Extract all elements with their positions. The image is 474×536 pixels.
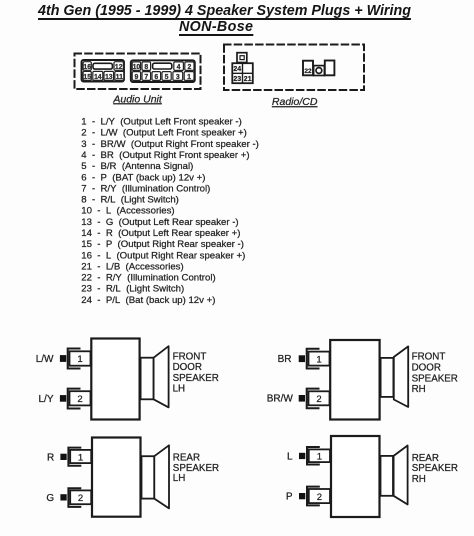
svg-text:14: 14 xyxy=(94,74,102,81)
key box inner square xyxy=(240,56,244,60)
terminal 1 box xyxy=(70,450,91,463)
speaker body FRONT DOOR LH xyxy=(91,339,139,420)
svg-text:4: 4 xyxy=(177,64,181,71)
svg-text:22 - R/Y (Illumination Cont: 22 - R/Y (Illumination Control) xyxy=(81,273,215,284)
svg-text:21: 21 xyxy=(244,76,252,83)
terminal 2 box xyxy=(70,391,91,405)
svg-text:14 - R (Output Left Rear sp: 14 - R (Output Left Rear speaker +) xyxy=(81,228,240,239)
Audio Unit connector A outer shell xyxy=(82,60,125,82)
pin 14 xyxy=(93,71,103,80)
Radio/CD plug round socket box xyxy=(314,66,325,76)
svg-text:15 - P (Output Right Rear s: 15 - P (Output Right Rear speaker -) xyxy=(81,239,244,250)
cone FRONT DOOR RH xyxy=(394,346,408,407)
terminal 1 housing bracket xyxy=(307,349,319,369)
pin 15 xyxy=(83,71,91,80)
svg-text:LH: LH xyxy=(173,473,186,484)
Radio/CD connector pin grid xyxy=(232,63,253,83)
svg-text:SPEAKER: SPEAKER xyxy=(412,463,458,474)
svg-text:11: 11 xyxy=(116,74,123,81)
svg-text:L/W: L/W xyxy=(36,354,54,365)
svg-text:1 - L/Y (Output Left Front: 1 - L/Y (Output Left Front speaker -) xyxy=(81,117,242,128)
svg-text:1: 1 xyxy=(317,452,322,463)
pin 5 xyxy=(162,72,171,81)
pin 1 xyxy=(184,72,194,81)
pin 6 xyxy=(152,72,161,81)
terminal 2 box xyxy=(70,490,91,504)
terminal 1 wire stub xyxy=(60,355,66,362)
connector B key slot xyxy=(153,63,172,69)
svg-text:2: 2 xyxy=(78,493,83,504)
svg-text:LH: LH xyxy=(173,384,186,395)
svg-text:2 - L/W (Output Left Front: 2 - L/W (Output Left Front speaker +) xyxy=(81,128,247,139)
svg-text:4 - BR (Output Right Front: 4 - BR (Output Right Front speaker +) xyxy=(81,150,249,161)
svg-text:6 - P (BAT (back up) 12v +): 6 - P (BAT (back up) 12v +) xyxy=(81,172,205,183)
svg-text:5 - B/R (Antenna Signal): 5 - B/R (Antenna Signal) xyxy=(81,161,193,172)
terminal 1 box xyxy=(309,352,330,366)
svg-text:12: 12 xyxy=(115,64,123,71)
terminal 1 wire stub xyxy=(60,454,66,460)
svg-text:7 - R/Y (Illumination Contr: 7 - R/Y (Illumination Control) xyxy=(81,183,210,194)
Audio Unit dashed enclosure xyxy=(75,54,201,90)
magnet FRONT DOOR RH xyxy=(381,358,394,397)
svg-text:RH: RH xyxy=(412,474,426,485)
svg-text:2: 2 xyxy=(187,64,191,71)
svg-text:24 - P/L (Bat (back up) 12v: 24 - P/L (Bat (back up) 12v +) xyxy=(81,295,215,306)
speaker body FRONT DOOR RH xyxy=(330,340,379,420)
cone REAR RH xyxy=(394,446,408,505)
magnet REAR RH xyxy=(381,456,394,496)
svg-text:13: 13 xyxy=(105,74,113,81)
svg-text:23 - R/L (Light Switch): 23 - R/L (Light Switch) xyxy=(81,284,184,295)
svg-text:DOOR: DOOR xyxy=(412,363,441,374)
Audio Unit connector B outer shell xyxy=(131,60,195,82)
svg-text:BR/W: BR/W xyxy=(267,394,294,405)
svg-text:L: L xyxy=(287,451,293,462)
svg-text:P: P xyxy=(286,492,293,503)
terminal 1 housing bracket xyxy=(68,448,80,466)
svg-text:21 - L/B (Accessories): 21 - L/B (Accessories) xyxy=(81,261,183,272)
svg-text:RH: RH xyxy=(412,384,426,395)
pin 4 xyxy=(174,62,184,71)
svg-text:Audio Unit: Audio Unit xyxy=(112,93,163,105)
pin 10 xyxy=(132,62,140,71)
speaker body REAR LH xyxy=(92,438,141,517)
terminal 1 wire stub xyxy=(299,355,305,362)
terminal 1 housing bracket xyxy=(307,447,319,465)
pin 9 xyxy=(132,72,140,81)
grid divider horizontal xyxy=(232,72,253,74)
svg-text:3 - BR/W (Output Right Fron: 3 - BR/W (Output Right Front speaker -) xyxy=(81,139,259,150)
svg-text:1: 1 xyxy=(78,452,83,463)
svg-text:R: R xyxy=(47,452,54,463)
terminal 2 wire stub xyxy=(299,395,305,402)
svg-text:16: 16 xyxy=(83,64,91,71)
cone REAR LH xyxy=(154,445,169,508)
title line 1 xyxy=(38,3,411,19)
terminal 1 housing bracket xyxy=(68,349,80,369)
svg-text:15: 15 xyxy=(83,74,91,81)
round socket xyxy=(316,68,322,74)
terminal 2 housing bracket xyxy=(68,389,80,409)
svg-text:13 - G (Output Left Rear sp: 13 - G (Output Left Rear speaker -) xyxy=(81,217,238,228)
pin 3 xyxy=(173,72,183,81)
svg-text:6: 6 xyxy=(154,74,158,81)
speaker body REAR RH xyxy=(331,436,380,517)
svg-text:SPEAKER: SPEAKER xyxy=(412,374,458,385)
svg-text:10: 10 xyxy=(133,64,141,71)
svg-text:BR: BR xyxy=(278,354,292,365)
terminal 1 wire stub xyxy=(299,453,305,459)
Radio/CD plug pin 22 box xyxy=(303,61,313,76)
svg-text:SPEAKER: SPEAKER xyxy=(173,373,219,384)
Radio/CD plug blank box xyxy=(325,61,335,76)
svg-text:SPEAKER: SPEAKER xyxy=(173,463,219,474)
svg-text:1: 1 xyxy=(187,74,191,81)
svg-text:9: 9 xyxy=(134,74,138,81)
svg-text:3: 3 xyxy=(176,74,180,81)
terminal 2 box xyxy=(309,489,330,503)
pin 12 xyxy=(114,62,123,71)
svg-text:24: 24 xyxy=(233,66,241,73)
svg-text:10 - L (Accessories): 10 - L (Accessories) xyxy=(81,206,174,217)
svg-text:G: G xyxy=(46,493,54,504)
svg-text:8 - R/L (Light Switch): 8 - R/L (Light Switch) xyxy=(81,195,179,206)
pin 2 xyxy=(185,62,194,71)
svg-text:2: 2 xyxy=(316,394,321,405)
magnet REAR LH xyxy=(142,456,155,498)
pin 13 xyxy=(104,71,114,80)
svg-text:8: 8 xyxy=(144,64,148,71)
svg-text:FRONT: FRONT xyxy=(173,351,207,362)
svg-text:16 - L (Output Right Rear s: 16 - L (Output Right Rear speaker +) xyxy=(81,250,245,261)
svg-text:5: 5 xyxy=(165,74,169,81)
grid divider vertical xyxy=(242,63,244,83)
svg-text:1: 1 xyxy=(77,354,82,365)
svg-text:L/Y: L/Y xyxy=(38,394,53,405)
terminal 2 housing bracket xyxy=(307,389,319,409)
terminal 2 housing bracket xyxy=(307,487,319,506)
pin 11 xyxy=(115,71,124,80)
svg-text:1: 1 xyxy=(316,354,321,365)
svg-text:FRONT: FRONT xyxy=(412,352,446,363)
pin 16 xyxy=(83,62,91,71)
Radio/CD connector key box xyxy=(237,53,247,63)
svg-text:Radio/CD: Radio/CD xyxy=(272,96,318,108)
magnet FRONT DOOR LH xyxy=(141,358,154,400)
pin 7 xyxy=(142,72,151,81)
pin 8 xyxy=(142,62,151,71)
title line 2 xyxy=(179,19,253,35)
svg-text:2: 2 xyxy=(317,492,322,503)
svg-text:7: 7 xyxy=(144,74,148,81)
svg-text:23: 23 xyxy=(233,76,241,83)
Radio/CD dashed enclosure xyxy=(224,45,364,91)
svg-text:2: 2 xyxy=(77,394,82,405)
svg-text:DOOR: DOOR xyxy=(173,362,202,373)
terminal 1 box xyxy=(70,351,91,365)
terminal 2 wire stub xyxy=(60,494,66,500)
connector A key slot xyxy=(93,63,112,69)
terminal 2 wire stub xyxy=(60,395,66,402)
terminal 1 box xyxy=(309,449,330,462)
terminal 2 box xyxy=(309,391,330,405)
pin list xyxy=(81,117,259,306)
terminal 2 wire stub xyxy=(299,493,305,499)
cone FRONT DOOR LH xyxy=(154,346,169,407)
terminal 2 housing bracket xyxy=(68,488,80,507)
svg-text:22: 22 xyxy=(304,68,312,75)
